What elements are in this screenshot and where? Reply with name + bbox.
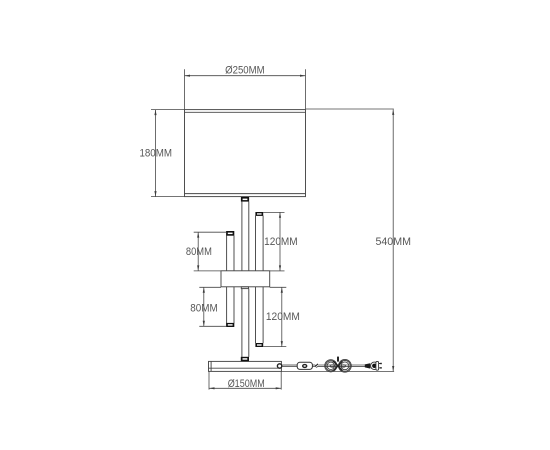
dim bot120 top extension line — [270, 286, 287, 288]
arrow top80 up — [197, 232, 199, 237]
pole bottom cap — [241, 357, 249, 362]
right tube upper section — [255, 216, 257, 271]
svg-text:120MM: 120MM — [266, 311, 300, 323]
dim O250 right extension line — [305, 69, 307, 109]
cord outlet nut on base — [277, 364, 281, 368]
arrow top80 down — [197, 265, 199, 270]
dim O150 line — [209, 387, 281, 389]
plug body — [371, 362, 378, 369]
arrow O150 right — [276, 387, 281, 389]
base left inner line — [210, 361, 212, 371]
dim O150 right extension line — [280, 371, 282, 389]
arrow bot80 up — [203, 287, 205, 292]
center pole lower section — [241, 289, 243, 357]
left tube bottom cap — [226, 323, 234, 327]
right tube lower section — [255, 287, 257, 343]
dim bot80 top extension line — [199, 286, 221, 288]
pole top cap — [241, 197, 249, 202]
left tube upper section — [226, 236, 228, 271]
dim 540 top extension line — [306, 108, 394, 110]
base — [209, 361, 282, 371]
floor extension line — [281, 371, 394, 373]
crossbar block — [221, 271, 270, 287]
dim top120 top extension line — [263, 211, 284, 213]
dim O150 left extension line — [208, 371, 210, 389]
cord segment base to switch — [282, 364, 297, 366]
lampshade top rim line — [185, 111, 306, 113]
coiled cable right lobe — [339, 359, 352, 372]
arrow bot120 down — [281, 341, 283, 346]
arrow 180 down — [154, 191, 156, 196]
svg-text:180MM: 180MM — [139, 148, 172, 160]
svg-text:540MM: 540MM — [375, 236, 411, 248]
svg-text:Ø250MM: Ø250MM — [225, 65, 265, 77]
arrow O250 left — [185, 75, 190, 77]
dim 540 line — [392, 110, 394, 372]
arrow bot120 up — [281, 287, 283, 292]
svg-text:Ø150MM: Ø150MM — [228, 378, 265, 390]
arrow 180 up — [154, 110, 156, 115]
dim top120 bottom extension line — [270, 270, 285, 272]
coil crossing — [333, 361, 342, 370]
dim O250 left extension line — [184, 69, 186, 109]
dim O250 line — [185, 75, 306, 77]
cord clip — [315, 363, 318, 368]
right tube top cap — [255, 212, 263, 216]
plug prongs — [379, 364, 381, 368]
svg-text:80MM: 80MM — [186, 246, 212, 258]
cord segment clip to plug through coil — [318, 364, 366, 366]
plug boot — [365, 363, 371, 368]
dim top80 top extension line — [194, 231, 227, 233]
base top inner line — [209, 367, 282, 369]
svg-text:80MM: 80MM — [190, 303, 218, 315]
dim bot120 bottom extension line — [263, 346, 286, 348]
svg-text:120MM: 120MM — [264, 236, 298, 248]
dim bot80 bottom extension line — [199, 325, 226, 327]
inline switch — [297, 362, 312, 369]
arrow bot80 down — [203, 321, 205, 326]
arrow O250 right — [300, 75, 305, 77]
dim top120 line — [279, 212, 281, 270]
lampshade bottom rim line — [185, 193, 306, 195]
dim bot120 line — [281, 287, 283, 346]
center pole upper section — [241, 202, 243, 271]
switch button — [303, 365, 307, 368]
cable end stub — [337, 357, 339, 362]
arrow 540 down — [392, 366, 394, 371]
dim top80 line — [197, 232, 199, 271]
left tube top cap — [226, 231, 234, 236]
dim 180 top extension line — [151, 109, 185, 111]
dim top80 bottom extension line — [194, 270, 221, 272]
lampshade — [185, 110, 306, 197]
left tube lower section — [226, 287, 228, 324]
right tube bottom cap — [255, 343, 263, 347]
dim 180 bottom extension line — [151, 196, 185, 198]
arrow 540 up — [392, 110, 394, 115]
block bottom collar — [241, 287, 248, 289]
dim bot80 line — [203, 287, 205, 326]
coiled cable left lobe — [325, 360, 337, 372]
arrow top120 down — [279, 265, 281, 270]
cord segment switch to clip — [312, 364, 315, 366]
arrow O150 left — [209, 387, 214, 389]
plug face bar — [376, 361, 379, 370]
dim 180 line — [155, 110, 157, 197]
arrow top120 up — [279, 212, 281, 217]
